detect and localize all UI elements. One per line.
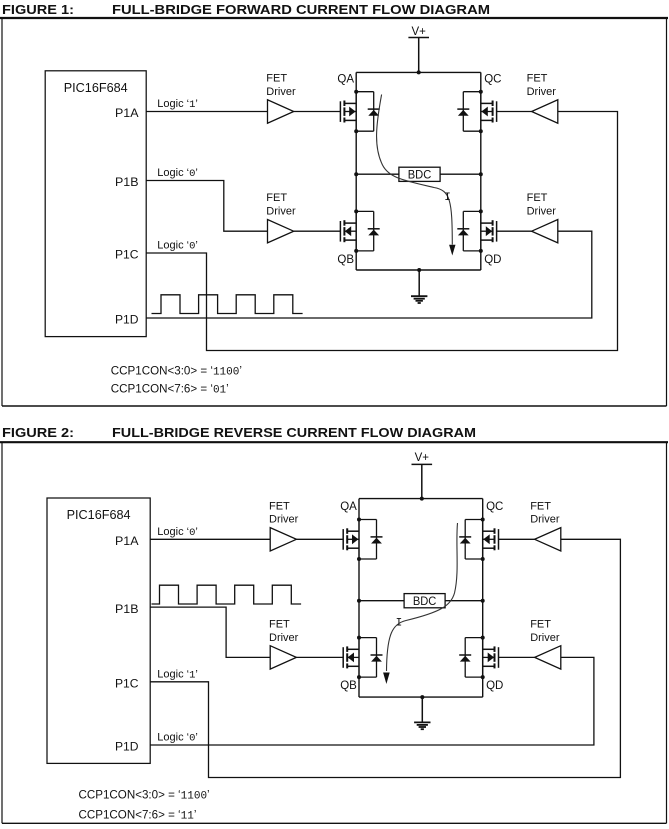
body diode of QD (459, 638, 483, 678)
svg-text:FET: FET (269, 618, 290, 630)
power node V+ (figure 2) (412, 452, 433, 499)
svg-text:P1C: P1C (115, 679, 139, 691)
transistor QB (343, 638, 359, 678)
figure 1 caption underline / frame top (0, 17, 668, 19)
junction node V+ / top rail (417, 70, 421, 74)
figure 2 frame (2, 442, 667, 823)
FET driver (U4, P1C to QC) (532, 100, 558, 123)
transistor QD (483, 638, 499, 678)
svg-text:PIC16F684: PIC16F684 (67, 507, 131, 522)
svg-text:FET: FET (527, 192, 548, 204)
body diode of QC (459, 520, 483, 560)
svg-text:QD: QD (484, 254, 501, 266)
junction node A (left motor terminal) (357, 599, 361, 603)
wire QD source to bottom rail (480, 251, 482, 270)
power node V+ (figure 1) (408, 26, 429, 73)
ground (figure 1) (411, 270, 427, 303)
junction node QA drain (354, 90, 358, 94)
wire P1D to FET driver 4 (150, 657, 594, 745)
junction node bottom rail / ground (420, 695, 424, 699)
svg-text:FET: FET (530, 618, 551, 630)
wire top rail to QA drain (355, 72, 357, 91)
wire P1B to FET driver 2 (146, 181, 267, 232)
label FET Driver (U5, P1D to QD) (530, 618, 560, 643)
svg-text:BDC: BDC (408, 168, 432, 182)
junction node QB drain (357, 636, 361, 640)
svg-text:Driver: Driver (530, 632, 560, 644)
junction node QD drain (481, 636, 485, 640)
wire top rail (359, 498, 483, 500)
wire bottom rail (359, 696, 483, 698)
wire P1D to FET driver 4 (146, 231, 592, 318)
wire FET driver 3 to QC gate (497, 111, 532, 113)
motor BDC (399, 167, 440, 181)
wire top rail to QA drain (358, 499, 360, 520)
junction node QD source (481, 675, 485, 679)
figure 1 frame (2, 18, 667, 406)
IC U2 PIC16F684 (47, 498, 150, 763)
svg-text:QB: QB (340, 680, 357, 692)
wire QC source to QD drain (482, 559, 484, 638)
junction node QB source (354, 249, 358, 253)
label FET Driver (U4, P1C to QC) (530, 500, 560, 525)
svg-text:QA: QA (337, 73, 354, 85)
transistor QB (340, 211, 356, 251)
svg-text:QC: QC (484, 73, 501, 85)
svg-text:FET: FET (269, 500, 290, 512)
wire P1C to FET driver 3 (150, 539, 620, 777)
junction node QA drain (357, 518, 361, 522)
FET driver (U5, P1D to QD) (535, 646, 561, 669)
junction node V+ / top rail (420, 497, 424, 501)
svg-text:Driver: Driver (266, 206, 296, 218)
junction node QA source (354, 129, 358, 133)
label FET Driver (U4, P1C to QC) (527, 73, 557, 98)
wire P1C to FET driver 3 (146, 112, 617, 351)
wire QB source to bottom rail (358, 677, 360, 697)
svg-text:Driver: Driver (266, 86, 296, 98)
body diode of QB (359, 638, 383, 678)
body diode of QA (359, 520, 383, 560)
transistor QA (340, 92, 356, 132)
wire QB source to bottom rail (355, 251, 357, 270)
IC U1 PIC16F684 (45, 71, 146, 337)
svg-text:FET: FET (530, 500, 551, 512)
svg-text:BDC: BDC (413, 594, 437, 608)
svg-text:Driver: Driver (527, 206, 557, 218)
svg-text:P1B: P1B (115, 604, 139, 616)
junction node QB drain (354, 209, 358, 213)
svg-text:P1D: P1D (115, 315, 139, 327)
svg-text:CCP1CON<7:6> = ‘11’: CCP1CON<7:6> = ‘11’ (79, 809, 197, 823)
body diode of QA (356, 92, 380, 132)
FET driver (U4, P1C to QC) (535, 528, 561, 551)
svg-text:FULL-BRIDGE FORWARD CURRENT FL: FULL-BRIDGE FORWARD CURRENT FLOW DIAGRAM (112, 3, 490, 17)
wire bottom rail (356, 269, 481, 271)
body diode of QC (457, 92, 481, 132)
transistor QC (483, 520, 499, 560)
svg-text:I: I (396, 618, 403, 630)
junction node QA source (357, 557, 361, 561)
wire FET driver 2 to QB gate (294, 230, 341, 232)
wire FET driver 3 to QC gate (499, 538, 535, 540)
label FET Driver (U2, P1A to QA) (266, 73, 296, 98)
junction node QC drain (479, 90, 483, 94)
svg-text:Logic ‘0’: Logic ‘0’ (157, 732, 198, 745)
svg-text:V+: V+ (412, 26, 427, 38)
svg-text:P1A: P1A (115, 536, 139, 548)
wire P1A to FET driver 1 (146, 111, 267, 113)
wire top rail to QC drain (482, 499, 484, 520)
ground (figure 2) (414, 697, 430, 729)
wire FET driver 2 to QB gate (296, 656, 343, 658)
wire top rail (356, 71, 481, 73)
svg-text:Logic ‘0’: Logic ‘0’ (157, 240, 198, 253)
wire mid rail right (node B) (445, 600, 483, 602)
PWM waveform on P1D (152, 295, 303, 314)
junction node QC source (481, 557, 485, 561)
FET driver (U2, P1A to QA) (268, 100, 294, 123)
wire mid rail left (node A) (356, 173, 399, 175)
svg-text:Driver: Driver (269, 632, 299, 644)
svg-text:Logic ‘0’: Logic ‘0’ (157, 526, 198, 539)
transistor QA (343, 520, 359, 560)
label FET Driver (U2, P1A to QA) (269, 500, 299, 525)
wire mid rail right (node B) (440, 173, 481, 175)
svg-text:Driver: Driver (269, 514, 299, 526)
svg-text:Driver: Driver (530, 514, 560, 526)
svg-text:QA: QA (340, 501, 357, 513)
motor BDC (404, 594, 445, 608)
svg-text:P1B: P1B (115, 177, 139, 189)
wire QA source to QB drain (358, 559, 360, 638)
transistor QD (481, 211, 497, 251)
svg-text:FIGURE 1:: FIGURE 1: (2, 3, 74, 17)
label FET Driver (U3, P1B to QB) (266, 192, 296, 217)
wire FET driver 1 to QA gate (296, 538, 343, 540)
wire top rail to QC drain (480, 72, 482, 91)
junction node QC source (479, 129, 483, 133)
svg-text:FET: FET (527, 73, 548, 85)
svg-text:FULL-BRIDGE REVERSE CURRENT FL: FULL-BRIDGE REVERSE CURRENT FLOW DIAGRAM (112, 426, 476, 440)
junction node A (left motor terminal) (354, 172, 358, 176)
svg-text:QC: QC (486, 501, 503, 513)
wire FET driver 1 to QA gate (294, 111, 341, 113)
label FET Driver (U3, P1B to QB) (269, 618, 299, 643)
svg-text:P1A: P1A (115, 108, 139, 120)
junction node QB source (357, 675, 361, 679)
junction node QD source (479, 249, 483, 253)
transistor QC (481, 92, 497, 132)
svg-text:Logic ‘1’: Logic ‘1’ (157, 98, 198, 111)
svg-text:PIC16F684: PIC16F684 (64, 80, 128, 95)
svg-text:Logic ‘1’: Logic ‘1’ (157, 669, 198, 682)
svg-text:Driver: Driver (527, 86, 557, 98)
current flow arrow I (383, 523, 457, 684)
body diode of QB (356, 211, 380, 251)
svg-text:QB: QB (337, 254, 354, 266)
svg-text:FET: FET (266, 192, 287, 204)
FET driver (U5, P1D to QD) (532, 220, 558, 243)
PWM waveform on P1B (152, 585, 302, 604)
svg-text:CCP1CON<7:6> = ‘01’: CCP1CON<7:6> = ‘01’ (111, 383, 229, 397)
FET driver (U2, P1A to QA) (270, 528, 296, 551)
FET driver (U3, P1B to QB) (268, 220, 294, 243)
wire QA source to QB drain (355, 131, 357, 211)
svg-text:P1D: P1D (115, 742, 139, 754)
svg-text:FIGURE 2:: FIGURE 2: (2, 426, 74, 440)
wire P1A to FET driver 1 (150, 538, 270, 540)
wire FET driver 4 to QD gate (499, 656, 535, 658)
junction node B (right motor terminal) (479, 172, 483, 176)
figure 1 caption (2, 3, 490, 17)
current flow arrow I (377, 95, 456, 256)
figure 2 caption (2, 426, 476, 440)
wire FET driver 4 to QD gate (497, 230, 532, 232)
svg-text:P1C: P1C (115, 250, 139, 262)
wire QC source to QD drain (480, 131, 482, 211)
wire mid rail left (node A) (359, 600, 404, 602)
junction node B (right motor terminal) (481, 599, 485, 603)
body diode of QD (457, 211, 481, 251)
label FET Driver (U5, P1D to QD) (527, 192, 557, 217)
svg-text:I: I (444, 192, 451, 204)
FET driver (U3, P1B to QB) (270, 646, 296, 669)
junction node QC drain (481, 518, 485, 522)
svg-text:FET: FET (266, 73, 287, 85)
figure 2 caption underline / frame top (0, 441, 668, 443)
wire QD source to bottom rail (482, 677, 484, 697)
svg-text:QD: QD (486, 680, 503, 692)
svg-text:CCP1CON<3:0> = ‘1100’: CCP1CON<3:0> = ‘1100’ (111, 365, 242, 379)
svg-text:V+: V+ (415, 452, 430, 464)
junction node bottom rail / ground (417, 268, 421, 272)
svg-text:Logic ‘0’: Logic ‘0’ (157, 167, 198, 180)
junction node QD drain (479, 209, 483, 213)
svg-text:CCP1CON<3:0> = ‘1100’: CCP1CON<3:0> = ‘1100’ (79, 789, 210, 803)
wire P1B to FET driver 2 (150, 607, 270, 657)
